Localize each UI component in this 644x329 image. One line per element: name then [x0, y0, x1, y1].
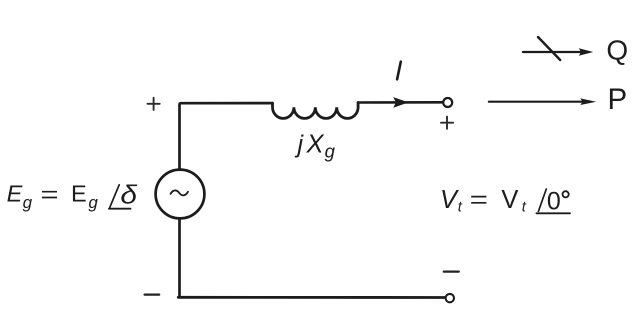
ac source sine tilde: [171, 190, 188, 195]
ac source G1 circle: [156, 170, 205, 219]
current arrowhead for I on top wire: [393, 97, 408, 108]
Q slash through arrow: [538, 37, 560, 60]
label Vt: angle underline: [536, 212, 570, 214]
svg-text:g: g: [88, 193, 98, 212]
svg-text:P: P: [608, 83, 628, 116]
wire: bottom horizontal: [178, 296, 445, 299]
label I (current) italic stroke: [397, 62, 401, 80]
svg-text:E: E: [71, 180, 87, 206]
svg-text:t: t: [458, 199, 463, 215]
label Eg: equals sign: [42, 192, 57, 198]
minus polarity at bottom-left: [145, 294, 160, 296]
Q arrow shaft: [523, 51, 581, 53]
label Vt: angle slash: [538, 189, 546, 211]
Q arrowhead: [579, 48, 594, 55]
svg-text:0: 0: [547, 187, 561, 215]
svg-text:g: g: [23, 193, 33, 212]
inductor jXg coil (4 scallops): [273, 103, 359, 119]
svg-text:δ: δ: [120, 180, 137, 209]
label Vt: equals sign: [471, 197, 486, 203]
label Vt: degree ring: [563, 191, 569, 197]
wire: left vertical upper segment and top horizontal to inductor: [180, 103, 273, 170]
svg-text:Q: Q: [606, 35, 628, 66]
svg-text:g: g: [325, 141, 336, 162]
plus polarity below top-right terminal: [441, 117, 453, 129]
P arrowhead: [580, 98, 596, 105]
label Eg: angle underline: [109, 208, 131, 210]
svg-text:X: X: [306, 131, 325, 159]
node: bottom-right open terminal: [446, 294, 454, 302]
label Eg: angle slash: [110, 185, 120, 208]
node: top-right open terminal: [443, 98, 452, 107]
plus polarity at source top: [148, 98, 160, 110]
wire: left vertical lower segment: [178, 218, 181, 297]
svg-text:V: V: [440, 186, 459, 214]
svg-text:V: V: [501, 186, 518, 214]
svg-text:t: t: [522, 199, 527, 215]
svg-text:E: E: [7, 180, 23, 206]
svg-text:j: j: [295, 131, 305, 159]
minus polarity above bottom-right terminal: [444, 270, 459, 272]
wire: top horizontal from inductor to right terminal: [358, 101, 443, 104]
P arrow shaft: [489, 101, 582, 103]
